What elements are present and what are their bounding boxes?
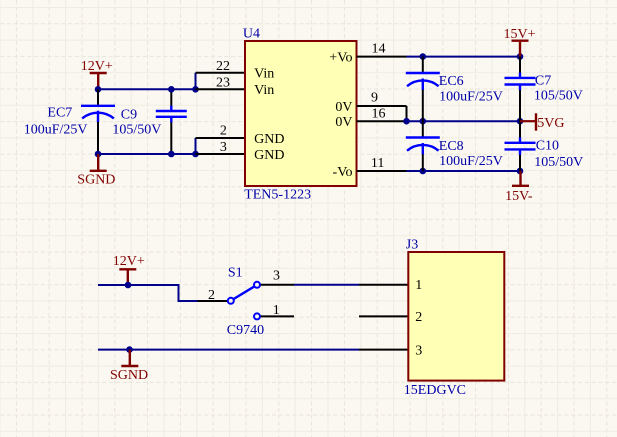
svg-text:EC6: EC6 [439, 74, 464, 89]
capacitor C10 [505, 121, 536, 171]
connector J3 pin 2 wire [359, 315, 408, 317]
label C7 designator [535, 74, 551, 89]
wire: vertical tie pins 9-16 [406, 106, 408, 121]
wire: 12V+ net to switch S1 pin 2 [98, 285, 198, 301]
label EC7 designator [47, 106, 72, 121]
svg-text:100uF/25V: 100uF/25V [439, 89, 503, 104]
svg-text:100uF/25V: 100uF/25V [24, 122, 88, 137]
label J3 designator [406, 238, 418, 253]
pin name 1 [415, 278, 422, 293]
label S1 comment C9740 [227, 323, 264, 338]
pin wire 23 [196, 88, 246, 90]
capacitor EC7 [81, 89, 115, 154]
svg-text:C9740: C9740 [227, 323, 264, 338]
svg-text:GND: GND [254, 148, 284, 163]
svg-text:12V+: 12V+ [113, 254, 145, 269]
pin number 14 [372, 42, 386, 57]
svg-text:105/50V: 105/50V [534, 155, 583, 170]
node: C9 bottom junction [168, 151, 175, 158]
pin name 0V (pin 9) [335, 100, 352, 115]
wire: vertical tie pins 2-3 [195, 138, 197, 154]
label EC7 value 100uF/25V [24, 122, 88, 137]
power 12V+ (bottom) [113, 254, 145, 285]
node: mid EC8 junction [420, 118, 427, 125]
svg-text:100uF/25V: 100uF/25V [439, 154, 503, 169]
wire: bottom rail (SGND net) [98, 153, 196, 155]
svg-text:2: 2 [415, 310, 422, 325]
connector J3 body [408, 252, 504, 381]
pin wire 11 [357, 170, 407, 172]
wire: 0V mid rail [407, 120, 521, 122]
svg-text:J3: J3 [406, 238, 418, 253]
node: pin 16 junction [403, 118, 410, 125]
node: pin 23 junction [192, 86, 199, 93]
node: pin 3 junction [192, 151, 199, 158]
svg-text:U4: U4 [243, 26, 260, 41]
capacitor C9 [156, 89, 187, 154]
node: +Vo EC6 junction [420, 53, 427, 60]
pin name -Vo (pin 11) [333, 165, 353, 180]
label J3 comment 15EDGVC [404, 383, 466, 398]
wire: vertical tie pins 22-23 [195, 73, 197, 90]
pin name Vin (pin 23) [254, 83, 274, 98]
svg-text:3: 3 [273, 269, 280, 284]
svg-text:16: 16 [372, 107, 386, 122]
svg-text:22: 22 [216, 59, 230, 74]
pin name +Vo (pin 14) [329, 50, 352, 65]
wire: bottom SGND rail [98, 349, 359, 351]
svg-text:1: 1 [415, 278, 422, 293]
node: -Vo EC8 junction [420, 168, 427, 175]
svg-text:S1: S1 [228, 265, 243, 280]
pin number 11 [371, 156, 384, 171]
capacitor EC6 [406, 57, 440, 122]
svg-text:TEN5-1223: TEN5-1223 [244, 188, 311, 203]
label EC6 value 100uF/25V [439, 89, 503, 104]
node: C9 top junction [168, 86, 175, 93]
connector J3 pin 3 wire [359, 349, 408, 351]
wire: S1 pin 3 to J3 pin 1 [294, 284, 359, 286]
svg-text:2: 2 [208, 288, 215, 303]
pin number 2 [220, 124, 227, 139]
svg-text:0V: 0V [335, 115, 352, 130]
svg-text:15V+: 15V+ [504, 27, 536, 42]
svg-text:-Vo: -Vo [333, 165, 353, 180]
svg-text:15V-: 15V- [505, 189, 533, 204]
switch S1 pin 2 wire [198, 300, 228, 302]
label C7 value 105/50V [534, 89, 583, 104]
label S1 designator [228, 265, 243, 280]
svg-text:12V+: 12V+ [81, 59, 113, 74]
pin name GND (pin 2) [254, 132, 284, 147]
pin number 22 [216, 59, 230, 74]
svg-text:105/50V: 105/50V [534, 89, 583, 104]
power 15V- [505, 171, 533, 204]
svg-text:9: 9 [371, 91, 378, 106]
svg-text:1: 1 [273, 303, 280, 318]
pin name 2 [415, 310, 422, 325]
node: SGND junction [126, 346, 133, 353]
pin number 3 [273, 269, 280, 284]
power SGND (top left) [77, 154, 115, 187]
label EC8 value 100uF/25V [439, 154, 503, 169]
pin number 3 [220, 140, 227, 155]
svg-text:EC7: EC7 [47, 106, 72, 121]
power 12V+ (top left) [81, 59, 113, 90]
pin name Vin (pin 22) [254, 67, 274, 82]
svg-text:C9: C9 [121, 107, 137, 122]
node: 12V+ junction [125, 282, 132, 289]
capacitor C7 [505, 57, 536, 122]
switch S1 pin 1 wire [261, 315, 294, 317]
pin number 9 [371, 91, 378, 106]
svg-text:Vin: Vin [254, 83, 274, 98]
wire: +Vo rail [407, 56, 521, 58]
svg-text:SGND: SGND [110, 368, 148, 383]
svg-text:C7: C7 [535, 74, 551, 89]
label C10 designator [536, 139, 559, 154]
capacitor EC8 [406, 121, 440, 171]
node: +Vo C7 junction [517, 53, 524, 60]
pin name 3 [415, 343, 422, 358]
connector J3 pin 1 wire [359, 284, 408, 286]
node: EC7 top junction [95, 86, 102, 93]
pin number 1 [273, 303, 280, 318]
pin wire 22 [196, 72, 246, 74]
label U4 comment TEN5-1223 [244, 188, 311, 203]
label U4 designator [243, 26, 260, 41]
svg-text:14: 14 [372, 42, 386, 57]
power 15V+ [504, 27, 536, 57]
label C9 designator [121, 107, 137, 122]
pin wire 14 [357, 56, 407, 58]
pin wire 16 [357, 120, 407, 122]
svg-text:5VG: 5VG [537, 116, 564, 131]
svg-text:0V: 0V [335, 100, 352, 115]
wire: top rail (12V+ net) [98, 88, 196, 90]
pin name 0V (pin 16) [335, 115, 352, 130]
svg-text:23: 23 [216, 76, 230, 91]
label EC6 designator [439, 74, 464, 89]
svg-text:3: 3 [220, 140, 227, 155]
label C9 value 105/50V [112, 123, 161, 138]
svg-text:GND: GND [254, 132, 284, 147]
svg-text:EC8: EC8 [439, 139, 464, 154]
node: mid C7/C10 junction [517, 118, 524, 125]
power 5VG [520, 113, 565, 131]
svg-text:11: 11 [371, 156, 384, 171]
svg-text:105/50V: 105/50V [112, 123, 161, 138]
label EC8 designator [439, 139, 464, 154]
svg-text:SGND: SGND [77, 172, 115, 187]
pin wire 3 [196, 153, 246, 155]
power SGND (bottom) [110, 350, 148, 384]
svg-text:3: 3 [415, 343, 422, 358]
switch S1 pin 3 wire [261, 284, 294, 286]
node: -Vo C10 junction [517, 168, 524, 175]
pin number 2 [208, 288, 215, 303]
svg-text:C10: C10 [536, 139, 559, 154]
switch S1 contacts and lever [228, 282, 260, 320]
pin number 16 [372, 107, 386, 122]
node: EC7 bottom junction [95, 151, 102, 158]
label C10 value 105/50V [534, 155, 583, 170]
svg-text:15EDGVC: 15EDGVC [404, 383, 466, 398]
pin number 23 [216, 76, 230, 91]
pin wire 9 [357, 105, 407, 107]
svg-text:2: 2 [220, 124, 227, 139]
svg-text:Vin: Vin [254, 67, 274, 82]
pin wire 2 [196, 137, 246, 139]
IC U4 body [245, 41, 357, 186]
pin name GND (pin 3) [254, 148, 284, 163]
wire: -Vo rail [407, 170, 521, 172]
svg-text:+Vo: +Vo [329, 50, 352, 65]
